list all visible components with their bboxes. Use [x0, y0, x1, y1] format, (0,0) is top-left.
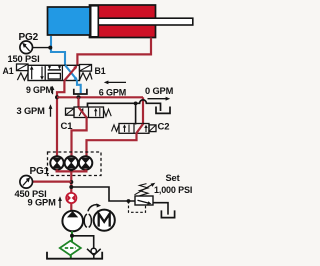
shaft coupling [84, 214, 87, 227]
node: junction PG1 [69, 180, 73, 184]
relief pilot dashed line [129, 201, 146, 212]
node: junction C2 top stub on tank header [134, 102, 138, 106]
wire: relief outlet to tank [153, 203, 168, 215]
wire: red through C2 [137, 124, 144, 133]
wire: red through C1 [79, 107, 87, 117]
svg-text:1,000 PSI: 1,000 PSI [154, 185, 192, 195]
svg-text:9 GPM: 9 GPM [26, 85, 53, 95]
divider inlet arrowhead [68, 169, 75, 172]
wire: red branch down into C2 [142, 97, 144, 124]
wire: red C2 to flow divider section 3 [87, 133, 137, 156]
solenoid C2 (right) [149, 125, 156, 132]
envelope 1 arrows [31, 68, 33, 79]
svg-text:3 GPM: 3 GPM [17, 106, 46, 116]
valve C2 body [119, 124, 149, 134]
cylinder cap-end chamber (blue) [48, 7, 91, 35]
wire: red collector inside divider [56, 170, 88, 172]
valve A1/B1 crossed flow path (red P to B) [64, 65, 77, 80]
spring (left end, valve A1/B1) [17, 73, 28, 80]
wire: red branch down into C1 [77, 97, 79, 107]
wire: red C1 to flow divider section 2 [72, 118, 87, 157]
wire: red rod-side line cylinder to valve B port [77, 38, 151, 66]
svg-text:C2: C2 [158, 121, 170, 132]
wire: red pump discharge column [70, 171, 72, 210]
envelope 2 (center) symbols [48, 69, 61, 71]
wire: black branch to check valve [72, 236, 94, 249]
flow divider dashed enclosure [48, 152, 102, 176]
node: junction to C1 [77, 95, 81, 99]
svg-text:150 PSI: 150 PSI [8, 54, 40, 64]
filter / strainer F1 [60, 241, 81, 255]
valve C1 body [74, 107, 104, 118]
flow divider section 3 [79, 156, 92, 169]
cylinder rod [98, 18, 193, 25]
pressure gauge PG1 [20, 176, 33, 189]
arrow up (pump flow) [58, 196, 62, 208]
wire: blue valve T port to tank [77, 81, 81, 94]
wire: red 6 GPM header [57, 96, 143, 98]
relief valve RV1 [135, 183, 156, 205]
wire: red valve P port down with jog [57, 81, 64, 157]
electric motor M [94, 210, 115, 231]
label 6 GPM with left arrow [104, 81, 126, 85]
svg-text:PG1: PG1 [30, 166, 50, 177]
gauge PG2 stem wire [33, 47, 52, 49]
solenoid C1 (left) [66, 108, 75, 115]
solenoid A1 (left) [17, 64, 29, 71]
pressure gauge PG2 [20, 41, 33, 54]
wire: filter to tank [70, 255, 72, 259]
node: junction gauge PG2 / blue line [48, 46, 52, 50]
wire: blue cap-side line cylinder to valve A port [51, 36, 65, 65]
svg-text:0 GPM: 0 GPM [145, 86, 174, 96]
directional valve A1/B1 body [28, 65, 80, 80]
flow divider section 1 [50, 156, 63, 169]
gauge PG1 stem wire (red) [33, 181, 72, 183]
flow divider section 2 [65, 156, 78, 169]
wire: black tank header from C1 [88, 100, 161, 111]
svg-text:B1: B1 [95, 66, 106, 76]
spring (right end C1) [104, 109, 112, 116]
tank symbol top right [156, 107, 170, 114]
rotation arrow [88, 203, 101, 211]
svg-text:6 GPM: 6 GPM [99, 88, 126, 98]
solenoid B1 (right) [80, 65, 92, 72]
svg-text:Set: Set [166, 173, 180, 183]
tank symbol (relief) [161, 210, 174, 217]
svg-text:PG2: PG2 [19, 32, 39, 43]
cylinder barrel (rod side, red) [90, 5, 156, 38]
node: junction check valve branch [70, 234, 74, 238]
node: junction 9GPM/6GPM [55, 95, 59, 99]
check valve CV1 [87, 248, 101, 258]
svg-text:A1: A1 [3, 66, 14, 76]
cylinder piston [91, 6, 99, 37]
valve A1/B1 crossed flow path (blue A to T) [65, 65, 78, 81]
svg-text:9 GPM: 9 GPM [28, 197, 57, 207]
reservoir tank (bottom) [47, 252, 102, 259]
flow meter symbol (red circle with triangles) [66, 193, 76, 203]
wire: green pump suction [71, 231, 73, 241]
wire: C2 top port stub [135, 103, 137, 124]
spring (left end C2) [112, 125, 120, 131]
wire: black branch to relief valve [71, 187, 135, 201]
tank symbol below valve A1/B1 [74, 89, 87, 94]
node: junction pilot line [127, 199, 131, 203]
node: junction relief branch [69, 185, 73, 189]
pump P1 [62, 211, 83, 232]
spring (right end, valve A1/B1) [80, 73, 93, 80]
